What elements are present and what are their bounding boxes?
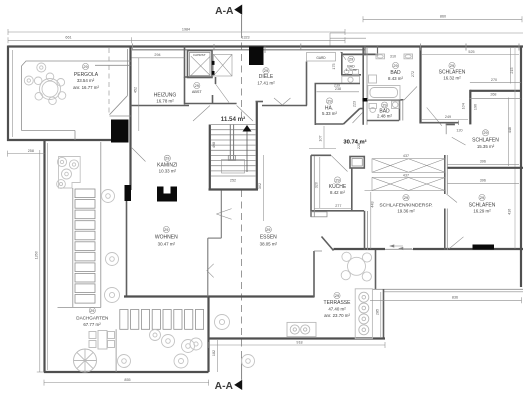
- svg-text:437: 437: [403, 154, 409, 158]
- svg-text:1984: 1984: [182, 27, 190, 31]
- svg-text:29: 29: [90, 309, 94, 313]
- wall terrace south: [208, 337, 385, 339]
- svg-text:104: 104: [462, 103, 466, 109]
- niche wall schlafen 16.32: [470, 47, 521, 249]
- stair landing outline: [222, 160, 245, 174]
- pergola round table with chairs: [34, 73, 65, 105]
- room label SCHLAFEN 15.35: [472, 130, 499, 149]
- wall south wohnen essen: [124, 295, 315, 297]
- pergola inner boundary: [22, 61, 132, 140]
- svg-text:1323: 1323: [241, 36, 249, 40]
- svg-text:320: 320: [315, 182, 319, 188]
- wall west bedrooms right: [445, 155, 457, 250]
- door swing abst: [216, 84, 230, 103]
- svg-text:17.41 m²: 17.41 m²: [257, 80, 275, 85]
- wall terrace east: [383, 289, 385, 339]
- room WC walls: [340, 52, 361, 76]
- svg-text:16.78 m²: 16.78 m²: [156, 98, 174, 103]
- door swing schlafen 16.29: [449, 237, 464, 249]
- svg-text:396: 396: [480, 160, 486, 164]
- svg-text:38.05 m²: 38.05 m²: [260, 242, 278, 247]
- room label SCHLAFEN KINDERSP: [379, 195, 432, 214]
- plant essen south: [190, 338, 202, 350]
- svg-text:228: 228: [357, 143, 361, 149]
- dimension 836: [370, 296, 522, 304]
- room label WOHNEN: [155, 226, 178, 246]
- cabinet bad 8.43: [369, 75, 377, 83]
- roof outline upper lines: [330, 33, 523, 46]
- svg-text:ESSEN: ESSEN: [260, 234, 277, 240]
- room BAD 2.48 walls: [367, 100, 403, 121]
- square table dachgarten: [89, 331, 115, 350]
- svg-text:196: 196: [473, 104, 477, 110]
- wall below elevator: [184, 76, 211, 78]
- svg-text:5.33 m²: 5.33 m²: [322, 111, 337, 116]
- svg-text:437: 437: [403, 173, 409, 177]
- black rect west wall: [125, 185, 132, 201]
- chamfer wall terrace: [322, 237, 334, 251]
- svg-text:ABST: ABST: [192, 90, 203, 94]
- plant terrace path: [215, 315, 230, 330]
- stair treads: [211, 125, 256, 177]
- dimension 294 heizung: [132, 53, 185, 58]
- plant pergola 2: [24, 76, 33, 85]
- svg-text:GARD: GARD: [316, 56, 326, 60]
- svg-text:120: 120: [456, 129, 462, 133]
- toilet WC: [344, 70, 358, 75]
- door swing schlafen 15.35: [452, 137, 466, 145]
- svg-text:DIELE: DIELE: [259, 74, 274, 80]
- dimension 249: [421, 115, 468, 120]
- dimension 302: [258, 155, 263, 221]
- svg-text:29: 29: [393, 64, 397, 68]
- svg-text:310: 310: [390, 55, 396, 59]
- svg-text:836: 836: [452, 296, 458, 300]
- wall south schlafen 15.35: [447, 167, 523, 169]
- dimension 443: [371, 192, 375, 249]
- svg-text:175: 175: [332, 63, 336, 69]
- svg-text:1.76 m²: 1.76 m²: [346, 68, 358, 72]
- svg-text:525: 525: [468, 50, 474, 54]
- svg-text:29: 29: [349, 58, 353, 62]
- svg-text:67.77 m²: 67.77 m²: [83, 322, 101, 327]
- toilet bad 2.48: [369, 104, 377, 113]
- wall dachgarten west: [43, 140, 45, 373]
- svg-text:33.54 m²: 33.54 m²: [77, 78, 95, 83]
- essen west boundary: [208, 191, 222, 297]
- svg-text:30.74 m²: 30.74 m²: [343, 139, 366, 146]
- svg-text:182: 182: [212, 350, 216, 356]
- dimension 258 pergola: [8, 149, 45, 157]
- room label TERRASSE: [324, 292, 352, 317]
- wall south bedrooms: [334, 248, 386, 250]
- wall pergola bottom: [7, 139, 112, 141]
- svg-text:anr. 16.77 m²: anr. 16.77 m²: [73, 85, 99, 90]
- dimension 215: [510, 47, 514, 84]
- wall heizung east: [184, 46, 186, 78]
- room label DACHGARTEN: [76, 307, 108, 327]
- wall east kueche-terrace: [365, 211, 368, 250]
- dimension 918: [209, 340, 385, 348]
- svg-text:29: 29: [404, 196, 408, 200]
- svg-text:8.42 m²: 8.42 m²: [330, 190, 345, 195]
- door chevron diele: [274, 98, 291, 105]
- dimension 855 bottom: [44, 378, 209, 386]
- door chevron essen west: [207, 264, 214, 278]
- wardrobe GARD: [307, 53, 336, 62]
- stub terrace nw: [314, 250, 322, 252]
- dimension 860 top right: [363, 15, 522, 23]
- plant south 4: [174, 354, 188, 368]
- svg-text:A-A: A-A: [215, 6, 234, 17]
- dimension 452 heizung: [133, 58, 139, 131]
- svg-text:30.47 m²: 30.47 m²: [158, 241, 176, 246]
- sinks bad 8.43: [376, 54, 413, 59]
- dimension 396 upper: [448, 160, 520, 165]
- room KUECHE walls: [311, 155, 352, 217]
- svg-text:443: 443: [371, 201, 375, 207]
- svg-text:285: 285: [375, 309, 379, 315]
- svg-text:258: 258: [28, 149, 34, 153]
- room label BAD 2.48: [377, 102, 392, 119]
- door swing bad 8.43: [427, 108, 442, 126]
- svg-text:272: 272: [411, 71, 415, 77]
- svg-text:A-A: A-A: [215, 381, 234, 392]
- svg-text:452: 452: [133, 87, 137, 93]
- wall top exterior: [8, 46, 523, 56]
- dimension 182: [212, 340, 218, 372]
- door diagonals hall: [193, 106, 210, 122]
- svg-text:11.54 m²: 11.54 m²: [221, 116, 245, 123]
- svg-text:448: 448: [508, 127, 512, 133]
- svg-text:29: 29: [164, 228, 168, 232]
- wall abst east stub: [215, 77, 217, 84]
- pergola dashed line: [108, 48, 110, 115]
- window tick marks top wall: [133, 44, 520, 54]
- svg-text:19.36 m²: 19.36 m²: [397, 208, 415, 213]
- svg-text:29: 29: [335, 178, 339, 182]
- svg-text:268: 268: [490, 93, 496, 97]
- svg-text:29: 29: [264, 69, 268, 73]
- dimension 285: [375, 292, 380, 338]
- plant south 3: [182, 340, 195, 353]
- svg-text:215: 215: [510, 67, 514, 73]
- dimension 238 ha: [317, 87, 360, 92]
- planter strip terrace: [355, 289, 372, 339]
- wall west core upper: [129, 46, 131, 190]
- dimension corridor line: [309, 148, 336, 150]
- wall abst west: [184, 77, 186, 105]
- svg-text:107: 107: [319, 135, 323, 141]
- svg-text:302: 302: [258, 183, 262, 189]
- stair top door diagonals: [237, 106, 253, 122]
- dimension 661: [8, 36, 132, 44]
- bathtub bad 8.43: [368, 86, 400, 100]
- sliding door arrows kindersp: [390, 245, 412, 250]
- svg-text:238: 238: [335, 87, 341, 91]
- wall west core lower: [126, 201, 128, 297]
- svg-text:47.40 m²: 47.40 m²: [328, 306, 346, 311]
- svg-text:29: 29: [327, 99, 331, 103]
- svg-text:855: 855: [124, 378, 130, 382]
- room label PERGOLA: [73, 63, 99, 89]
- dimension 396 lower: [448, 179, 520, 184]
- section marker A-A bottom: [215, 357, 243, 392]
- black window sill schlafen 16.29: [473, 245, 495, 250]
- parapet lower terrace: [372, 289, 523, 292]
- dimension 107: [319, 126, 325, 148]
- svg-text:416: 416: [507, 209, 511, 215]
- wall abst south: [184, 103, 237, 105]
- svg-text:TERRASSE: TERRASSE: [324, 300, 352, 306]
- plant pergola 1: [37, 63, 46, 72]
- svg-text:396: 396: [480, 179, 486, 183]
- wall north kindersp edge: [365, 190, 373, 192]
- wall column wc-bad: [363, 47, 368, 125]
- svg-text:860: 860: [440, 15, 446, 19]
- wall diele east: [306, 62, 308, 106]
- svg-text:29: 29: [335, 294, 339, 298]
- plant south 5: [242, 355, 255, 368]
- wall kueche south: [311, 210, 365, 212]
- svg-text:anr. 23.70 m²: anr. 23.70 m²: [324, 313, 350, 318]
- dimension 1260 left: [34, 150, 42, 372]
- room label HEIZUNG: [154, 92, 177, 103]
- svg-text:SCHLAFEN: SCHLAFEN: [472, 138, 499, 144]
- plant dachgarten w: [106, 253, 119, 266]
- room label BAD 8.43: [388, 62, 403, 80]
- room label HA: [322, 98, 337, 116]
- svg-text:29: 29: [266, 228, 270, 232]
- shower bad 2.48: [392, 101, 400, 109]
- washbasin below wc: [342, 76, 360, 83]
- svg-text:270: 270: [491, 78, 497, 82]
- plant dachgarten nw: [102, 190, 115, 203]
- room label ABST: [192, 82, 203, 94]
- chimney black pergola: [111, 120, 129, 143]
- terrace round table: [341, 252, 371, 281]
- stairwell walls: [209, 101, 264, 191]
- svg-text:29: 29: [480, 196, 484, 200]
- walls schlafen 15.35 north: [421, 121, 459, 126]
- wall diele south: [262, 105, 307, 107]
- svg-text:WOHNEN: WOHNEN: [155, 234, 178, 240]
- room BAD 8.43 walls: [367, 47, 421, 124]
- section marker A-A top: [215, 5, 242, 32]
- dimension 448: [508, 98, 512, 167]
- plant south 1: [150, 330, 161, 341]
- room label KAMINZI: [157, 155, 177, 173]
- svg-text:10.33 m²: 10.33 m²: [159, 168, 177, 173]
- walkway lines dachgarten: [58, 142, 117, 372]
- wall kaminzi north: [131, 105, 190, 107]
- svg-text:29: 29: [165, 157, 169, 161]
- plant south 2: [162, 335, 175, 348]
- svg-text:249: 249: [445, 115, 451, 119]
- section line A-A dashed: [241, 31, 243, 122]
- svg-text:252: 252: [230, 179, 236, 183]
- svg-text:1260: 1260: [34, 251, 38, 259]
- plant dachgarten south corner: [118, 355, 131, 368]
- spiral stair dachgarten: [74, 349, 97, 372]
- svg-text:KÜCHE: KÜCHE: [329, 183, 347, 190]
- svg-text:498: 498: [212, 142, 216, 148]
- planter box terrace south: [287, 322, 316, 336]
- pergola se corner chamfer: [110, 49, 131, 116]
- svg-text:SCHLAFEN/KINDERSP.: SCHLAFEN/KINDERSP.: [379, 202, 432, 208]
- dimension 270: [470, 78, 521, 83]
- shaft void beside elevator: [212, 54, 232, 76]
- wall east essen: [313, 251, 315, 297]
- void hatch band 1: [372, 159, 445, 173]
- svg-text:FAHRST: FAHRST: [193, 53, 205, 57]
- svg-text:29: 29: [83, 65, 87, 69]
- wall left exterior pergola: [7, 46, 9, 142]
- svg-text:29: 29: [195, 84, 199, 88]
- stair direction arrow: [243, 125, 252, 172]
- svg-text:PERGOLA: PERGOLA: [74, 72, 99, 78]
- shaft box kueche: [350, 157, 364, 169]
- svg-text:294: 294: [154, 53, 160, 57]
- svg-text:661: 661: [65, 36, 71, 40]
- svg-text:29: 29: [450, 64, 454, 68]
- room label SCHLAFEN 16.29: [469, 194, 496, 213]
- fireplace wohnen: [157, 187, 177, 202]
- door swing ha: [353, 113, 363, 124]
- plant dachgarten sw corner: [105, 288, 120, 303]
- room label WC: [346, 56, 358, 72]
- wall dachgarten south: [44, 371, 209, 373]
- chimney black diele: [249, 47, 264, 66]
- wall right exterior: [520, 46, 522, 287]
- room label SCHLAFEN 16.32: [439, 62, 466, 80]
- door swing kaminzi: [131, 147, 146, 162]
- svg-text:DACHGARTEN: DACHGARTEN: [76, 316, 108, 321]
- dimension 1984 top: [8, 27, 345, 35]
- stair center divider: [228, 125, 235, 161]
- wall terrace ne stub: [375, 250, 377, 289]
- svg-text:277: 277: [335, 204, 341, 208]
- wall terrace west: [207, 297, 209, 372]
- dimension 320 kueche: [315, 157, 320, 208]
- void hatch band 2: [372, 178, 445, 191]
- door chevron hall-essen: [216, 209, 231, 220]
- room label DIELE: [257, 68, 275, 86]
- svg-text:2.48 m²: 2.48 m²: [377, 114, 392, 119]
- dimension 1323: [132, 36, 346, 44]
- svg-text:16.29 m²: 16.29 m²: [473, 208, 491, 213]
- svg-text:16.32 m²: 16.32 m²: [443, 75, 461, 80]
- svg-text:29: 29: [483, 131, 487, 135]
- louver strip horizontal dachgarten: [120, 310, 204, 330]
- svg-text:8.43 m²: 8.43 m²: [388, 76, 403, 81]
- room label KUECHE: [329, 177, 347, 195]
- room label ESSEN: [260, 226, 278, 246]
- dimension 277 kueche: [314, 204, 352, 209]
- svg-text:29: 29: [382, 103, 386, 107]
- room HA walls: [315, 84, 364, 126]
- svg-text:223: 223: [353, 101, 357, 107]
- dimension 525: [421, 50, 519, 55]
- elevator FAHRST: [188, 51, 213, 78]
- svg-text:918: 918: [296, 340, 302, 344]
- planting bed dachgarten: [57, 157, 81, 189]
- svg-text:15.35 m²: 15.35 m²: [477, 144, 495, 149]
- louver strip vertical dachgarten: [75, 189, 95, 303]
